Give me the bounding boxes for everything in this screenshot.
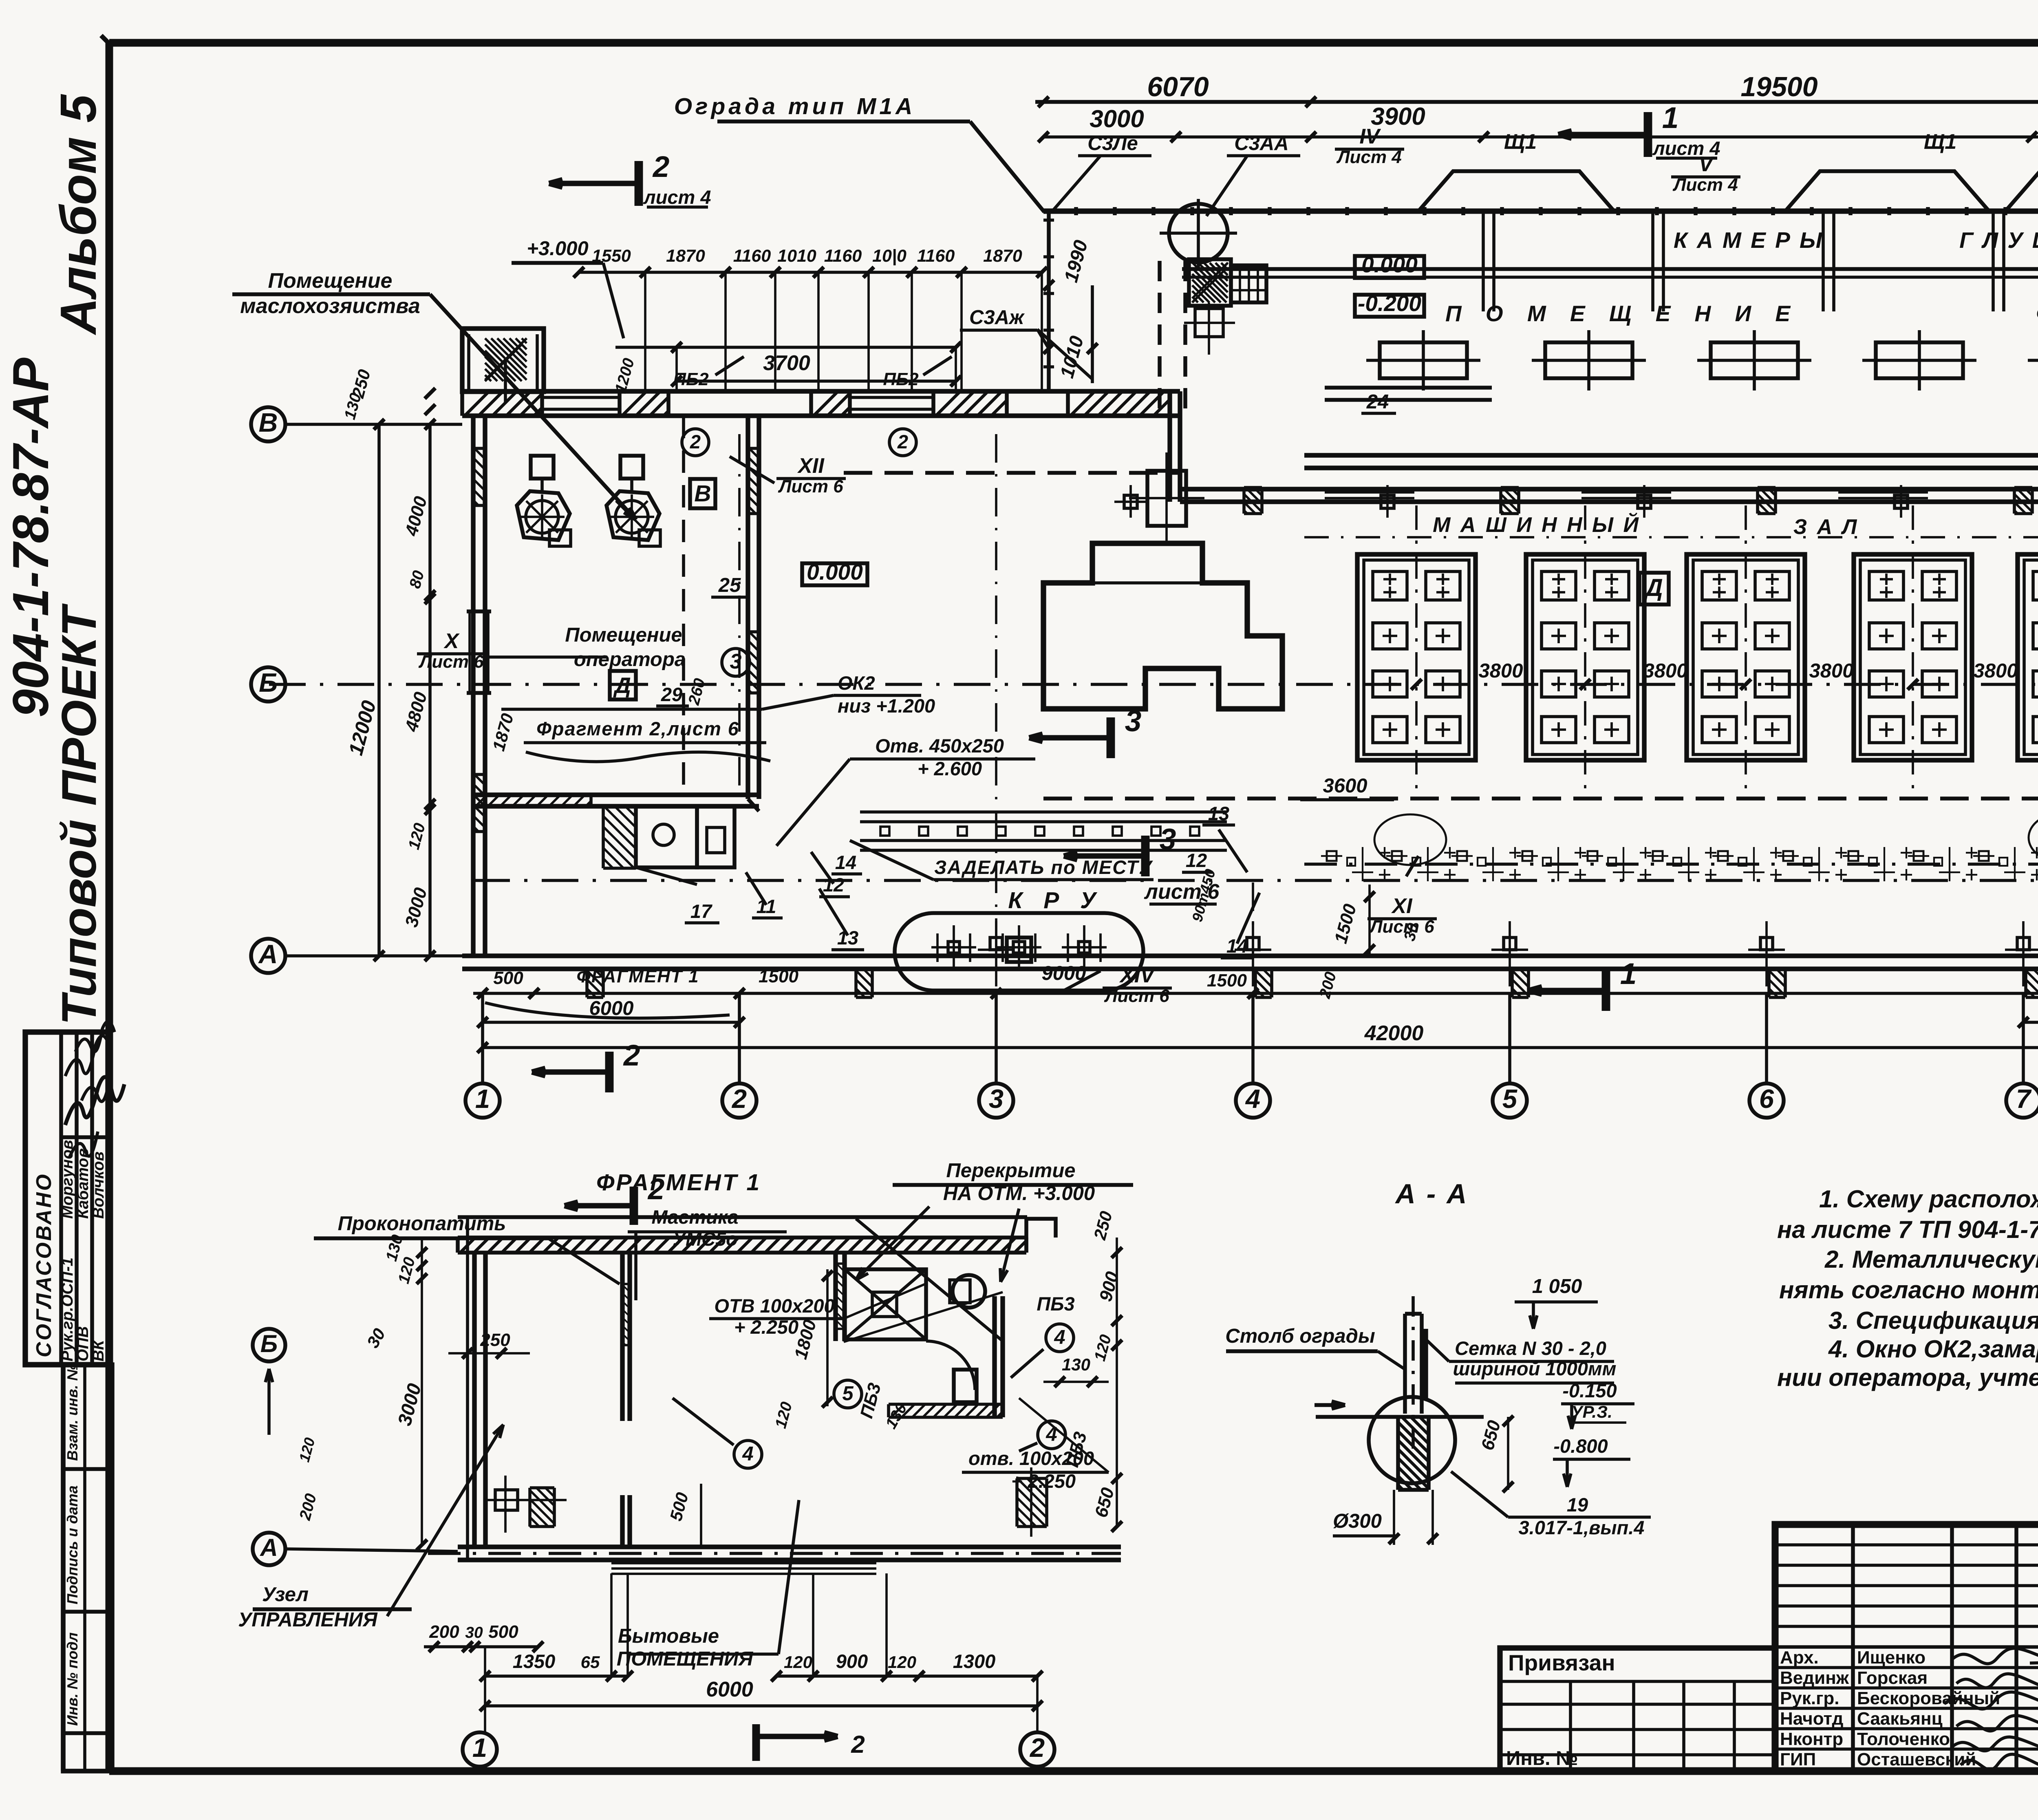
svg-text:2: 2 (623, 1039, 640, 1072)
svg-text:ПБ2: ПБ2 (883, 369, 919, 389)
В box (690, 479, 715, 508)
svg-text:2: 2 (897, 431, 908, 452)
svg-text:С3АА: С3АА (1234, 132, 1288, 154)
dim row 6070/19500/3050 (1035, 100, 2038, 104)
svg-text:13: 13 (1208, 803, 1229, 824)
left piers (495, 1490, 518, 1510)
svg-text:19500: 19500 (1740, 71, 1817, 102)
svg-text:1500: 1500 (759, 966, 798, 986)
svg-text:1350: 1350 (513, 1650, 556, 1672)
svg-text:Начотд: Начотд (1780, 1709, 1843, 1729)
fence circles (1169, 204, 1228, 263)
0.000 / -0.200 level boxes (1355, 256, 1424, 278)
svg-text:25: 25 (718, 574, 741, 596)
svg-text:13: 13 (837, 927, 858, 949)
svg-text:4: 4 (1054, 1326, 1065, 1348)
камеры south wall (1182, 267, 2038, 271)
svg-text:4: 4 (742, 1443, 753, 1465)
svg-text:К А М Е Р Ы: К А М Е Р Ы (1674, 227, 1824, 253)
fence line (1043, 208, 2038, 214)
dim row 3000/3900/3900 (1043, 135, 2038, 139)
svg-text:низ +1.200: низ +1.200 (838, 695, 935, 717)
fragment grid circles (463, 1732, 497, 1767)
svg-text:1: 1 (472, 1733, 487, 1763)
svg-text:200: 200 (429, 1622, 459, 1642)
post (1403, 1314, 1407, 1414)
svg-text:1300: 1300 (953, 1650, 996, 1672)
svg-text:Д: Д (613, 673, 631, 698)
svg-text:1870: 1870 (666, 246, 705, 266)
svg-text:Помещение: Помещение (565, 624, 682, 646)
row A grid letter (251, 939, 285, 973)
svg-text:24: 24 (1366, 391, 1389, 413)
6000 dims (483, 1021, 739, 1024)
fragment left grid letters (253, 1329, 285, 1361)
corridor equipment strip (1304, 863, 2038, 866)
svg-text:42000: 42000 (1364, 1021, 1424, 1045)
svg-text:120: 120 (888, 1652, 916, 1672)
svg-text:904-1-78.87-АР: 904-1-78.87-АР (3, 357, 59, 717)
ventilation units (531, 456, 554, 479)
soglasovano table (25, 1032, 108, 1365)
svg-text:3800: 3800 (1973, 660, 2018, 682)
operator room partition (746, 416, 750, 799)
svg-text:29: 29 (661, 684, 682, 705)
svg-text:1160: 1160 (733, 246, 771, 266)
svg-text:IV: IV (1359, 125, 1381, 148)
svg-text:Ограда тип М1А: Ограда тип М1А (674, 93, 916, 119)
svg-text:Типовой ПРОЕКТ: Типовой ПРОЕКТ (52, 603, 106, 1025)
flag 1 bottom (1602, 970, 1610, 1011)
svg-text:лист 4: лист 4 (643, 186, 711, 208)
partition 1 (620, 1253, 624, 1421)
svg-text:Волчков: Волчков (90, 1152, 107, 1219)
svg-text:130: 130 (1062, 1355, 1090, 1374)
заделать по месту channel (860, 810, 1227, 814)
svg-text:Лист 4: Лист 4 (1672, 175, 1738, 195)
stepped foundation polygon (1043, 543, 1282, 709)
svg-text:3800: 3800 (1643, 660, 1687, 682)
svg-text:Столб ограды: Столб ограды (1225, 1325, 1375, 1347)
dashed axis lines (844, 471, 1180, 475)
flag 2 bottom (605, 1052, 614, 1092)
машзал north wall right part (1180, 487, 2038, 491)
svg-text:ОПВ: ОПВ (74, 1326, 92, 1361)
svg-text:УПРАВЛЕНИЯ: УПРАВЛЕНИЯ (238, 1609, 378, 1631)
0.000 box (802, 563, 867, 585)
svg-text:5: 5 (1502, 1084, 1517, 1114)
svg-text:А - А: А - А (1395, 1178, 1469, 1209)
right pier (1017, 1477, 1047, 1480)
2 / лист 4 flag top (635, 161, 643, 206)
svg-text:500: 500 (493, 968, 523, 988)
svg-text:ПОМЕЩЕНИЯ: ПОМЕЩЕНИЯ (617, 1648, 754, 1670)
svg-text:ОК2: ОК2 (838, 672, 875, 694)
svg-text:Альбом 5: Альбом 5 (51, 94, 107, 335)
row A south wall (462, 953, 2038, 958)
svg-text:Бытовые: Бытовые (618, 1625, 719, 1647)
svg-text:3: 3 (1160, 823, 1176, 856)
svg-text:Помещение: Помещение (268, 269, 393, 293)
svg-text:XII: XII (797, 454, 825, 478)
frame (109, 39, 2038, 47)
svg-text:11: 11 (757, 896, 776, 917)
svg-text:4: 4 (1045, 1423, 1057, 1445)
svg-text:+3.000: +3.000 (527, 238, 588, 260)
svg-text:1550: 1550 (592, 246, 631, 266)
svg-text:3: 3 (989, 1084, 1004, 1114)
svg-text:Горская: Горская (1857, 1668, 1928, 1688)
svg-text:12: 12 (823, 874, 844, 896)
svg-text:1870: 1870 (983, 246, 1022, 266)
маслохозяйство room (462, 329, 544, 392)
row B north wall (left block) (462, 389, 1180, 393)
svg-text:А: А (259, 1534, 278, 1561)
svg-text:Рук.гр.: Рук.гр. (1780, 1688, 1839, 1708)
svg-text:Осташевский: Осташевский (1857, 1749, 1976, 1769)
svg-text:6: 6 (1759, 1084, 1774, 1114)
svg-text:7: 7 (2016, 1084, 2032, 1114)
svg-text:С3Ле: С3Ле (1087, 132, 1138, 154)
svg-text:Ф И Л Ь Т Р О В: Ф И Л Ь Т Р О В (2036, 301, 2038, 326)
svg-text:-0.800: -0.800 (1553, 1435, 1608, 1457)
svg-text:В: В (694, 481, 711, 507)
svg-text:оператора: оператора (574, 649, 686, 671)
svg-text:3700: 3700 (763, 351, 810, 375)
svg-text:0.000: 0.000 (1361, 252, 1418, 277)
svg-text:30: 30 (465, 1624, 483, 1641)
svg-text:2: 2 (690, 431, 701, 452)
svg-text:17: 17 (690, 900, 712, 922)
row Б grid letter (251, 667, 285, 702)
svg-text:Лист 4: Лист 4 (1336, 147, 1401, 167)
svg-text:6000: 6000 (589, 997, 633, 1019)
svg-text:Перекрытие: Перекрытие (946, 1160, 1075, 1182)
svg-text:маслохозяиства: маслохозяиства (240, 294, 420, 318)
svg-text:Ищенко: Ищенко (1857, 1648, 1926, 1668)
grid axis dashdot verticals (995, 434, 997, 954)
фильтров south wall (1304, 453, 2038, 457)
svg-text:Рук.гр.ОСП-1: Рук.гр.ОСП-1 (59, 1257, 76, 1361)
Д box (1639, 573, 1669, 604)
svg-text:4. Окно ОК2,замаркированное: 4. Окно ОК2,замаркированное на данном ли… (1828, 1335, 2038, 1363)
svg-text:Взам. инв. №: Взам. инв. № (64, 1364, 81, 1461)
svg-text:1: 1 (1662, 101, 1679, 135)
svg-text:900: 900 (836, 1650, 868, 1672)
left wall of fragment (472, 1253, 476, 1547)
svg-text:2: 2 (1029, 1733, 1045, 1763)
flag 2 bottom of fragment (752, 1724, 760, 1761)
svg-text:3000: 3000 (1090, 105, 1144, 132)
svg-text:Кабатов: Кабатов (74, 1148, 92, 1219)
svg-text:2: 2 (731, 1084, 747, 1114)
svg-text:Ø300: Ø300 (1333, 1510, 1382, 1532)
svg-text:ВК: ВК (90, 1339, 107, 1361)
камеры dividing walls (1482, 213, 1485, 311)
svg-text:Щ1: Щ1 (1504, 130, 1537, 154)
svg-text:65: 65 (581, 1652, 600, 1672)
svg-text:1 050: 1 050 (1532, 1275, 1582, 1297)
svg-text:1500: 1500 (1207, 971, 1247, 991)
svg-text:6070: 6070 (1147, 71, 1209, 102)
svg-text:Фрагмент 2,лист 6: Фрагмент 2,лист 6 (536, 718, 739, 739)
svg-text:XI: XI (1391, 894, 1413, 918)
svg-text:V: V (1699, 152, 1715, 176)
svg-text:Инв. № подл: Инв. № подл (64, 1632, 81, 1726)
flag 2 top of fragment (630, 1187, 638, 1225)
svg-text:9000: 9000 (1041, 962, 1086, 984)
svg-text:2: 2 (647, 1173, 665, 1206)
svg-text:ФРАГМЕНТ 1: ФРАГМЕНТ 1 (576, 966, 699, 986)
slab with hatch (458, 1215, 1027, 1219)
svg-text:СОГЛАСОВАНО: СОГЛАСОВАНО (32, 1173, 56, 1357)
svg-text:Инв. №: Инв. № (1506, 1747, 1578, 1769)
svg-text:1160: 1160 (917, 246, 955, 266)
svg-text:Подпись и дата: Подпись и дата (64, 1485, 81, 1604)
svg-text:нять согласно монтажным узл: нять согласно монтажным узлам 19-28 сери… (1779, 1276, 2038, 1304)
dim row under plan (473, 992, 2038, 995)
svg-text:Привязан: Привязан (1508, 1650, 1615, 1675)
fragment right dims (1116, 1238, 1118, 1527)
bottom wall (row Б axis of fragment) (458, 1544, 1121, 1549)
svg-text:-0.150: -0.150 (1562, 1380, 1617, 1401)
svg-text:Бескоровайный: Бескоровайный (1857, 1688, 2000, 1708)
svg-text:+ 2.600: + 2.600 (918, 758, 982, 779)
svg-text:-0.200: -0.200 (1358, 291, 1421, 316)
42000 dim (483, 1046, 2038, 1049)
svg-text:1160: 1160 (824, 246, 862, 266)
bathroom walls (833, 1253, 838, 1341)
svg-text:3800: 3800 (1809, 660, 1853, 682)
svg-text:Арх.: Арх. (1780, 1648, 1819, 1668)
svg-text:X: X (443, 629, 460, 653)
svg-text:2: 2 (851, 1731, 865, 1758)
svg-text:Отв. 450х250: Отв. 450х250 (875, 735, 1004, 757)
svg-text:В: В (259, 408, 278, 437)
svg-text:Лист 6: Лист 6 (778, 477, 843, 496)
svg-text:3600: 3600 (1323, 775, 1367, 797)
grid circles 1-8 (481, 993, 484, 1083)
svg-text:3. Спецификация элементов к: 3. Спецификация элементов к плану дана н… (1828, 1307, 2038, 1334)
svg-text:2: 2 (652, 150, 670, 183)
svg-text:ФРАГМЕНТ 1: ФРАГМЕНТ 1 (596, 1169, 761, 1196)
svg-text:на листе 7 ТП 904-1-78.87-: на листе 7 ТП 904-1-78.87-КЖ. (1777, 1216, 2038, 1243)
svg-text:0.000: 0.000 (807, 559, 863, 585)
svg-text:Лист 6: Лист 6 (1104, 986, 1169, 1006)
row B grid letter (251, 407, 285, 441)
toilets (636, 806, 697, 867)
svg-text:2. Металлическую ограду на: 2. Металлическую ограду наружной площадк… (1824, 1246, 2038, 1273)
svg-text:Сетка N 30 - 2,0: Сетка N 30 - 2,0 (1455, 1337, 1606, 1359)
svg-text:250: 250 (480, 1330, 510, 1350)
svg-text:3: 3 (730, 650, 742, 673)
svg-text:А: А (258, 939, 278, 969)
svg-text:Узел: Узел (262, 1584, 309, 1606)
svg-text:1: 1 (1620, 957, 1637, 991)
svg-text:ПБ2: ПБ2 (673, 369, 709, 389)
svg-text:К Р У: К Р У (1008, 887, 1103, 913)
svg-text:Б: Б (260, 1330, 278, 1357)
equipment cluster (сзаж unit) (1189, 259, 1231, 306)
svg-text:ЗАДЕЛАТЬ по МЕСТУ: ЗАДЕЛАТЬ по МЕСТУ (934, 856, 1153, 878)
svg-text:Б: Б (259, 668, 278, 697)
left exterior wall (471, 416, 475, 956)
svg-text:6000: 6000 (706, 1678, 753, 1701)
svg-text:ОТВ 100х200: ОТВ 100х200 (714, 1295, 834, 1317)
svg-text:1: 1 (475, 1084, 490, 1114)
svg-text:Вединж: Вединж (1780, 1668, 1849, 1688)
svg-text:М А Ш И Н Н Ы Й: М А Ш И Н Н Ы Й (1433, 512, 1641, 537)
svg-text:Саакьянц: Саакьянц (1857, 1709, 1943, 1729)
filter room rectangles (1380, 342, 1467, 378)
left vertical dims (377, 424, 381, 956)
svg-text:5: 5 (842, 1383, 854, 1405)
svg-text:Г Л У Ш Е Н И Я: Г Л У Ш Е Н И Я (1959, 227, 2038, 253)
svg-text:14: 14 (1226, 935, 1248, 957)
svg-text:19: 19 (1567, 1494, 1588, 1516)
svg-text:ПБ3: ПБ3 (1037, 1293, 1074, 1315)
svg-text:3800: 3800 (1478, 660, 1523, 682)
trapezoid panels Щ1 (1418, 171, 1614, 211)
svg-text:Д: Д (1643, 574, 1663, 601)
svg-text:Нконтр: Нконтр (1780, 1729, 1843, 1749)
svg-text:нии оператора, учтено в спе: нии оператора, учтено в спецификации на … (1777, 1364, 2038, 1391)
svg-text:ГИП: ГИП (1780, 1749, 1816, 1769)
dashed yard lines (1158, 261, 1162, 417)
svg-text:XIV: XIV (1119, 964, 1156, 987)
svg-text:Лист 6: Лист 6 (1369, 917, 1434, 937)
svg-text:Щ1: Щ1 (1924, 130, 1956, 154)
svg-text:Лист 6: Лист 6 (418, 652, 484, 672)
svg-text:УР.З.: УР.З. (1571, 1402, 1612, 1421)
svg-text:14: 14 (835, 852, 856, 873)
svg-text:4: 4 (1245, 1084, 1260, 1114)
svg-text:3: 3 (1125, 705, 1142, 738)
svg-text:1. Схему расположения подзем: 1. Схему расположения подземных конструк… (1819, 1185, 2038, 1213)
svg-text:3.017-1,вып.4: 3.017-1,вып.4 (1519, 1517, 1645, 1538)
top small dims over left block (579, 271, 1043, 274)
svg-text:1010: 1010 (777, 246, 816, 266)
3 flags (1107, 717, 1115, 758)
left inventory strip (61, 1365, 65, 1771)
svg-text:С3Аж: С3Аж (969, 307, 1025, 329)
svg-text:500: 500 (488, 1622, 518, 1642)
svg-text:Толоченко: Толоченко (1857, 1729, 1950, 1749)
svg-text:П О М Е Щ Е Н И Е: П О М Е Щ Е Н И Е (1445, 301, 1799, 326)
svg-text:10|0: 10|0 (872, 246, 907, 266)
svg-text:З А Л: З А Л (1793, 515, 1859, 539)
svg-text:120: 120 (784, 1652, 812, 1672)
